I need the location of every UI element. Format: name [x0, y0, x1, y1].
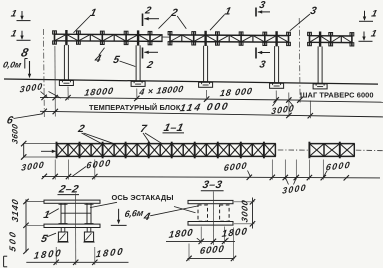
svg-text:6000: 6000	[325, 160, 351, 173]
svg-text:2: 2	[143, 6, 152, 17]
svg-text:1: 1	[10, 9, 18, 20]
svg-text:6,6м: 6,6м	[124, 208, 145, 219]
label 1 leader (column in 2-2)	[42, 209, 58, 221]
section mark 3-3 (bottom)	[256, 48, 270, 71]
dim line 1800+1800 (section 3-3)	[166, 227, 235, 245]
ground line 0,0	[4, 79, 378, 84]
svg-text:1: 1	[370, 29, 378, 40]
svg-text:5: 5	[112, 54, 122, 66]
extension line x=55	[54, 46, 56, 117]
svg-text:3: 3	[258, 60, 266, 71]
section 3-3 bottom traverse bar	[188, 222, 233, 226]
svg-text:0,0м: 0,0м	[2, 60, 23, 70]
label 1 leader (girder, left)	[74, 7, 98, 33]
svg-text:18000: 18000	[84, 86, 115, 98]
dim line 6000 (section 3-3)	[186, 228, 236, 262]
underline shag travers	[299, 101, 383, 102]
leader to axis label	[90, 202, 117, 207]
svg-text:3: 3	[258, 0, 266, 11]
dimension line row 1 (spans)	[40, 87, 303, 117]
label 1 leader (girder, mid)	[210, 6, 232, 31]
plan truss band 2 (next block)	[309, 142, 355, 159]
svg-text:3600: 3600	[11, 123, 20, 145]
section 3-3 right hidden column (dashed)	[220, 205, 230, 221]
svg-text:114 000: 114 000	[179, 102, 230, 115]
section 2-2 left pedestal	[57, 228, 68, 242]
text TEMPERATURNYJ BLOK	[89, 103, 181, 112]
svg-text:6000: 6000	[86, 158, 112, 171]
svg-text:4: 4	[93, 53, 103, 65]
svg-text:3000: 3000	[19, 81, 43, 94]
title 3-3	[201, 179, 224, 191]
label 6 leader (dim line)	[6, 114, 43, 127]
section 3-3 centre axis	[212, 192, 214, 246]
dim text 4 x 18000	[138, 84, 185, 97]
dim text 3000 (right, leadered)	[271, 100, 295, 116]
plan dim 6000 (middle, leadered)	[223, 160, 250, 176]
section mark 2-2 (top)	[143, 6, 160, 26]
section mark 3-3 (top)	[256, 0, 270, 16]
level mark 1 (lower left)	[10, 29, 31, 41]
svg-text:1–1: 1–1	[163, 122, 185, 134]
section mark 2-2 (bottom)	[143, 48, 159, 72]
section 2-2 centre axis	[75, 194, 77, 266]
svg-text:4 × 18000: 4 × 18000	[138, 84, 185, 97]
arrow to ground level	[28, 61, 31, 78]
dim line 1800+1800 (section 2-2)	[26, 247, 128, 265]
label 4 leader (truss)	[93, 48, 105, 65]
section 2-2 left column (I-beam)	[59, 204, 68, 225]
level mark 1 (lower right)	[359, 29, 378, 42]
column 4 with footing (elevation)	[270, 46, 284, 88]
dim text 18000 (right span)	[219, 86, 253, 98]
svg-text:ОСЬ ЭСТАКАДЫ: ОСЬ ЭСТАКАДЫ	[112, 193, 174, 202]
svg-text:18 000: 18 000	[219, 86, 253, 98]
svg-text:5: 5	[40, 233, 50, 245]
label 8 (pipe tier count)	[20, 46, 30, 60]
svg-text:2: 2	[145, 60, 154, 71]
svg-text:8: 8	[20, 46, 30, 60]
svg-text:1: 1	[224, 6, 233, 18]
text SHAG TRAVERS 6000	[300, 91, 374, 100]
plan axis dash-dot right	[356, 149, 383, 152]
svg-text:7: 7	[139, 123, 149, 135]
plan dim 6000 (right, leadered)	[323, 160, 351, 177]
svg-text:3000: 3000	[271, 103, 295, 116]
dim text 1800 (3-3 left)	[168, 227, 194, 241]
svg-text:1: 1	[89, 7, 98, 19]
svg-text:1800: 1800	[168, 227, 194, 241]
vertical dim 3600 (plan width)	[11, 123, 56, 160]
title 2-2	[57, 184, 80, 196]
vertical dim 3140/500 (section 2-2)	[8, 198, 44, 254]
label 7 leader (plan posts)	[139, 123, 161, 143]
dim text 6000 (3-3)	[199, 244, 225, 257]
svg-text:1800: 1800	[221, 226, 249, 240]
section 3-3 left hidden column (dashed)	[198, 205, 208, 221]
svg-text:1: 1	[10, 29, 18, 40]
column 2 with footing (elevation)	[131, 45, 145, 86]
splice line across girder gap	[162, 36, 171, 38]
label 2 double leader (posts)	[159, 7, 187, 29]
section 2-2 right column (I-beam)	[85, 204, 94, 225]
dim text 1800 (3-3 right)	[221, 226, 249, 240]
dim text 1800 (2-2 right)	[95, 246, 125, 260]
plan dim 3000 (left)	[21, 159, 45, 172]
dim text 3000 (left)	[19, 81, 61, 98]
label 5 leader (column)	[112, 54, 135, 66]
svg-text:3000: 3000	[240, 198, 250, 223]
label 5 leader (pedestal in 2-2)	[40, 233, 56, 245]
dim text 114 000	[179, 102, 230, 115]
svg-text:1800: 1800	[95, 246, 125, 260]
level arrow 6,6m	[111, 209, 127, 226]
svg-text:ТЕМПЕРАТУРНЫЙ БЛОК: ТЕМПЕРАТУРНЫЙ БЛОК	[89, 103, 181, 112]
column 3 with footing (elevation)	[199, 46, 213, 88]
dim text 1800 (2-2 left)	[33, 248, 63, 262]
label 0,0m elevation	[2, 59, 28, 70]
svg-text:6000: 6000	[223, 160, 248, 173]
corner bracket bottom-left	[4, 256, 8, 267]
column 1 with footing (elevation)	[59, 45, 73, 86]
arrow to plan band end	[41, 150, 56, 153]
dimension line row 2 (temperature block)	[40, 101, 383, 119]
section 3-3 top traverse bar	[188, 200, 233, 203]
level mark 1 (upper right)	[359, 9, 378, 22]
column 5 with footing (elevation)	[313, 46, 327, 89]
svg-text:3000: 3000	[21, 159, 45, 172]
vertical dim 3000 (section 3-3)	[234, 198, 255, 229]
svg-text:ШАГ ТРАВЕРС 6000: ШАГ ТРАВЕРС 6000	[300, 91, 374, 100]
truss girder band B (elevation)	[168, 31, 290, 47]
truss girder band A (elevation)	[53, 30, 163, 46]
svg-text:3000: 3000	[282, 182, 307, 196]
second leader crossing	[174, 207, 196, 213]
svg-text:2–2: 2–2	[57, 184, 80, 196]
section 2-2 mid strut	[61, 212, 91, 214]
plan dimension line row	[42, 160, 380, 181]
label 2 leader (plan posts)	[76, 123, 113, 143]
plan dim 3000 (bottom, leadered)	[282, 178, 307, 196]
axis dash-dot line (left edge of viaduct)	[43, 29, 46, 117]
title 1-1	[163, 122, 185, 134]
level mark 1 (upper left)	[10, 9, 31, 21]
svg-text:3: 3	[309, 5, 318, 17]
label 3 leader (girder, right)	[290, 5, 318, 31]
text OS ESTAKADY	[112, 193, 174, 202]
dim text 18000 (left span)	[84, 86, 115, 98]
label 4 leader (traverse in 3-3)	[142, 206, 198, 223]
section 2-2 bottom traverse beam	[44, 224, 100, 227]
svg-text:1: 1	[42, 209, 51, 221]
section 2-2 right pedestal	[83, 228, 94, 242]
svg-text:3–3: 3–3	[201, 179, 223, 191]
break axis dash-dot x=299.5	[298, 18, 301, 103]
plan axis dash-dot between bands	[278, 149, 309, 151]
svg-text:500: 500	[8, 229, 18, 253]
svg-text:1: 1	[370, 9, 378, 20]
text 6,6m	[124, 208, 145, 219]
plan truss band 1 (section 1-1)	[56, 142, 276, 159]
section 2-2 top traverse beam	[44, 200, 100, 203]
plan dim 6000 (left, leadered)	[72, 158, 112, 177]
truss girder band C (elevation, next block)	[308, 32, 354, 47]
svg-text:3140: 3140	[10, 198, 20, 223]
svg-text:6000: 6000	[199, 244, 225, 257]
